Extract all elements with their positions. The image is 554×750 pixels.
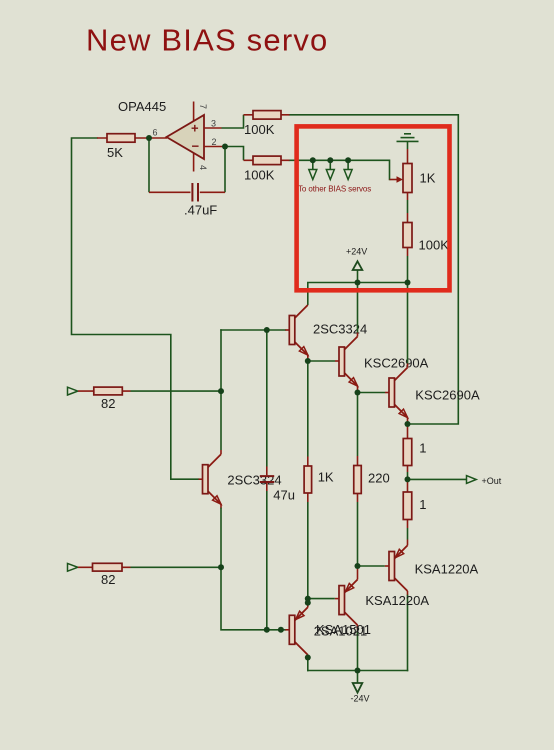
lead: R4 top [407, 213, 409, 223]
wire: Q7 collector to rail [307, 658, 309, 671]
node: pin2 junction [222, 144, 228, 150]
red highlight box [297, 126, 450, 290]
wire: Q1 base from left node [221, 329, 285, 331]
svg-text:2SA1021: 2SA1021 [314, 624, 368, 639]
resistor R3 100K leads [244, 159, 290, 161]
svg-text:To other BIAS servos: To other BIAS servos [298, 184, 371, 193]
wire: R5 to +Out node [407, 472, 409, 479]
node: 47u / Q7 base wire [264, 627, 270, 633]
wire: R3 right to servo bus [290, 160, 390, 179]
resistor R4 100K body [403, 223, 412, 248]
svg-text:47u: 47u [273, 488, 295, 503]
resistor R2 100K leads [244, 114, 290, 116]
wire: Q6 base [308, 598, 335, 600]
svg-text:KSA1220A: KSA1220A [365, 593, 429, 608]
wire: R7 down to Q5 base node [357, 502, 359, 566]
svg-text:100K: 100K [244, 122, 275, 137]
resistor R9 82 leads [78, 390, 131, 392]
wire: input2 junction down and right to Q7 base [221, 567, 285, 630]
resistor R9 82 body [94, 387, 123, 395]
lead: R4 bottom [407, 248, 409, 257]
node: input1 / Q4 collector [218, 388, 224, 394]
svg-text:7: 7 [198, 104, 208, 109]
svg-text:-24V: -24V [351, 694, 370, 704]
node: tap 1 [310, 157, 316, 163]
tap arrow 2 [326, 170, 334, 180]
potentiometer RV1 wiper arrow [390, 179, 399, 181]
svg-text:6: 6 [153, 128, 158, 138]
wire: pot to R4 [407, 200, 409, 213]
ground [397, 134, 419, 149]
op-amp U1 OPA445 pin4 power line [193, 152, 195, 172]
resistor R5 1 body [403, 439, 412, 466]
wire: +Out [408, 478, 467, 480]
svg-text:1K: 1K [420, 171, 436, 186]
power +24V arrow [357, 271, 359, 283]
svg-text:+Out: +Out [482, 476, 502, 486]
svg-text:82: 82 [101, 572, 115, 587]
lead: Q3 base [385, 392, 389, 394]
wire: R6 down to Q5 emitter [407, 528, 409, 540]
resistor R1 5K body [107, 134, 135, 143]
op-amp pin3 lead [204, 127, 222, 129]
wire: pin3 to resistor R2 [222, 115, 244, 128]
resistor R2 100K body [253, 111, 281, 120]
node: pin6 / 5K / feedback [146, 135, 152, 141]
svg-text:1K: 1K [318, 470, 334, 485]
node: -24V rail [355, 668, 361, 674]
resistor R6 1 leads [407, 479, 409, 528]
wire: 47u capacitor column bottom [266, 491, 268, 630]
node: R7 / Q5 base / Q6 emitter [355, 563, 361, 569]
transistor Q4 2SC3324 [199, 450, 222, 509]
wire: pin2 node to resistor R3 [225, 147, 244, 161]
resistor R8 1K body [304, 466, 312, 493]
op-amp U1 OPA445 triangle [167, 115, 205, 159]
transistor Q7 2SA1021 / KSA1501 [289, 603, 308, 658]
op-amp pin2 lead [204, 146, 225, 148]
capacitor C2 47u plates [260, 476, 274, 482]
output terminal +Out [467, 476, 477, 484]
svg-text:+: + [191, 121, 199, 136]
svg-text:KSC2690A: KSC2690A [415, 388, 480, 403]
wire: R8 down to Q6 base node [307, 502, 309, 603]
svg-text:2: 2 [212, 137, 217, 147]
lead: ground to pot RV1 [407, 149, 409, 164]
wire: R9 to junction [131, 390, 222, 392]
node: Q3 emitter / sense / R5 [405, 421, 411, 427]
wire: R2 right around to output sense (right feedback loop) [290, 115, 459, 424]
svg-text:−: − [192, 139, 200, 154]
svg-text:.47uF: .47uF [184, 203, 217, 218]
svg-text:OPA445: OPA445 [118, 99, 166, 114]
transistor Q6 KSA1220A [335, 566, 358, 630]
node: +Out / R5 / R6 [405, 476, 411, 482]
wire: Q1 emitter node down to 1K R8 [307, 361, 309, 457]
lead: Q7 base [285, 629, 289, 631]
node: Q7 collector pin [305, 655, 311, 661]
wire: op-amp pin6 node to cap C1 left [148, 138, 150, 192]
wire: Q5 collector down to rail [407, 596, 409, 671]
lead: Q2 base [335, 360, 339, 362]
transistor Q5 KSA1220A [385, 540, 408, 596]
wire: tap stem 2 [329, 160, 331, 169]
wire: op-amp pin2 node to cap C1 right [224, 147, 226, 193]
wire: Q4 emitter down to input2 junction [220, 509, 222, 568]
lead: pot to R4 [407, 193, 409, 201]
svg-text:2SC3324: 2SC3324 [313, 322, 367, 337]
wire: R10 to junction [131, 566, 222, 568]
op-amp pin6 lead [149, 137, 167, 139]
lead: Q1 base [285, 329, 289, 331]
wire: bottom -24V rail [308, 670, 408, 672]
svg-text:1: 1 [419, 441, 426, 456]
svg-text:4: 4 [198, 165, 208, 170]
wire: 5K left to feedback left column [72, 138, 199, 479]
wire: tap stem 1 [312, 160, 314, 169]
node: tap 3 [345, 157, 351, 163]
resistor R7 220 leads [357, 456, 359, 502]
tap arrow 3 [344, 170, 352, 180]
capacitor C1 .47uF plates [192, 183, 198, 202]
resistor R7 220 body [354, 466, 362, 494]
svg-text:+24V: +24V [346, 247, 367, 257]
resistor R6 1 body [403, 492, 412, 520]
op-amp U1 OPA445 pin7 power line [193, 102, 195, 122]
svg-text:New BIAS servo: New BIAS servo [86, 23, 329, 58]
wire: tap stem 3 [347, 160, 349, 169]
svg-text:3: 3 [211, 119, 216, 129]
resistor R5 1 leads [407, 424, 409, 472]
wire: R4 to +24V rail [407, 256, 409, 283]
potentiometer RV1 1K body [403, 164, 412, 193]
input terminal 1 [68, 387, 78, 395]
svg-text:2SC3324: 2SC3324 [227, 473, 281, 488]
resistor R8 1K leads [307, 457, 309, 503]
wire: 47u capacitor column top [266, 330, 268, 467]
wire: Q4 collector column [220, 391, 222, 450]
node: Q2 emitter / Q3 base / R7 [355, 390, 361, 396]
node: Q7 emitter pin [305, 600, 311, 606]
resistor R10 82 leads [78, 566, 131, 568]
wire: node down to input1 junction [220, 330, 222, 391]
svg-text:1: 1 [419, 497, 426, 512]
wire: Q6 collector down to rail [357, 630, 359, 671]
resistor R1 5K leads [97, 137, 149, 139]
transistor Q1 2SC3324 [289, 283, 308, 362]
svg-text:220: 220 [368, 471, 390, 486]
svg-text:100K: 100K [419, 238, 450, 253]
node: input2 / Q4 emitter [218, 564, 224, 570]
transistor Q2 KSC2690A [339, 283, 358, 393]
node: +24V rail / Q2 collector [355, 280, 361, 286]
svg-text:KSA1220A: KSA1220A [415, 562, 479, 577]
wire: Q3 base [358, 392, 386, 394]
tap arrow 1 [309, 170, 317, 180]
resistor R3 100K body [253, 156, 281, 165]
svg-text:82: 82 [101, 396, 115, 411]
capacitor C1 .47uF leads [149, 191, 225, 193]
power -24V arrow [357, 671, 359, 683]
wire: Q2 base [308, 360, 335, 362]
node: tap 2 [327, 157, 333, 163]
svg-text:KSC2690A: KSC2690A [364, 356, 429, 371]
wire: +24V rail [308, 282, 408, 284]
node: Q1 base / 47u [264, 327, 270, 333]
wire: Q2 emitter node down to 220 R7 [357, 393, 359, 457]
node: Q1 emitter / Q2 base / R8 [305, 358, 311, 364]
input terminal 2 [68, 563, 78, 571]
capacitor C2 47u leads [266, 467, 268, 492]
transistor Q3 KSC2690A [389, 283, 408, 425]
svg-text:100K: 100K [244, 168, 275, 183]
svg-text:5K: 5K [107, 145, 123, 160]
resistor R10 82 body [93, 563, 123, 571]
node: +24V rail / R4 / Q3 collector [405, 280, 411, 286]
node: Q7 base wire second dot [278, 627, 284, 633]
node: R8 / Q6 base [305, 596, 311, 602]
wire: Q5 base [358, 565, 385, 567]
